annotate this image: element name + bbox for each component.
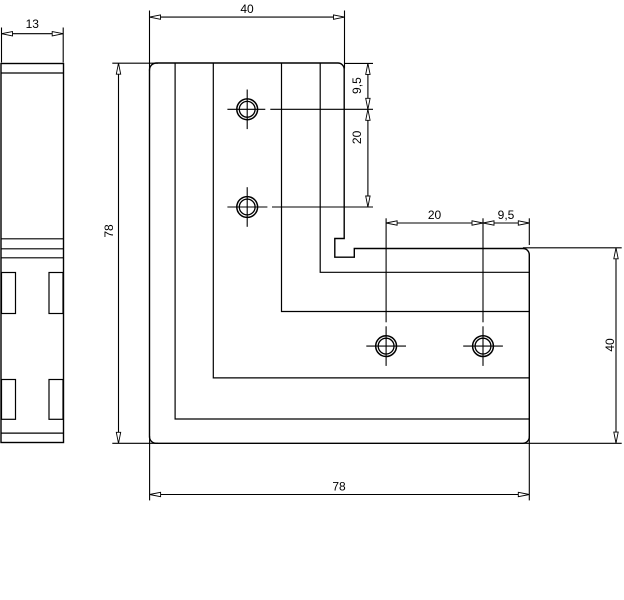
side view groove line A [1, 238, 64, 240]
dimension 40 top arrows [150, 15, 345, 19]
dimension 78 left extension lines [112, 63, 158, 443]
dimension 9,5 vertical line [367, 63, 369, 109]
side view top chamfer line [1, 72, 64, 74]
side view upper left slot [2, 273, 16, 314]
dimension 9,5 vertical arrows [366, 63, 370, 109]
dimension 9,5 horizontal extension line right [528, 218, 530, 245]
side view upper right slot [49, 273, 63, 314]
dimension 40 right line [615, 248, 617, 443]
dimension 78 left line [118, 63, 120, 443]
svg-text:20: 20 [428, 208, 442, 222]
side view bottom chamfer line [1, 432, 64, 434]
front view inner contour L4 [320, 63, 529, 272]
svg-text:78: 78 [102, 224, 116, 238]
hole H3 circles [376, 336, 397, 357]
dimension 9,5 horizontal line [483, 222, 529, 224]
dimension 13 extension lines [2, 28, 64, 63]
side view lower right slot [49, 380, 63, 420]
dimension 20 horizontal arrows [386, 221, 483, 225]
dimension 78 left arrows [116, 63, 120, 443]
dimension 20 vertical line [367, 109, 369, 207]
dimension 20 vertical arrows [366, 109, 370, 207]
dimension 78 bottom extension lines [150, 436, 530, 500]
svg-text:78: 78 [332, 480, 346, 494]
side view groove line B [1, 248, 64, 250]
hole H1 centerlines [227, 90, 373, 130]
front view inner contour L1 [175, 63, 529, 419]
front view inner contour L2 [213, 63, 529, 378]
dimension 78 bottom arrows [150, 492, 530, 496]
dimension 9,5 vertical extension line top [344, 62, 373, 64]
side view groove line C [1, 257, 64, 259]
svg-text:40: 40 [240, 2, 254, 16]
svg-text:9,5: 9,5 [498, 208, 515, 222]
dimension 40 right arrows [614, 248, 618, 443]
dimension 13 line [2, 33, 64, 35]
hole H4 circles [473, 336, 494, 357]
side view lower left slot [2, 380, 16, 420]
dimension 78 bottom line [150, 494, 530, 496]
hole H3 centerlines [366, 218, 406, 366]
svg-text:40: 40 [603, 338, 617, 352]
dimension 40 top extension lines [150, 11, 345, 72]
hole H1 circles [237, 99, 258, 120]
front view inner contour L3 [282, 63, 530, 312]
svg-text:9,5: 9,5 [350, 77, 364, 94]
front view outer profile [150, 63, 530, 443]
dimension 9,5 horizontal arrows [483, 221, 529, 225]
hole H4 centerlines [463, 218, 503, 366]
svg-text:20: 20 [350, 130, 364, 144]
dimension 13 arrows [2, 32, 64, 36]
dimension 40 right extension lines [523, 248, 622, 443]
hole H2 circles [237, 197, 258, 218]
dimension 20 horizontal line [386, 222, 483, 224]
side view body outline [1, 64, 64, 443]
dimension 40 top line [150, 16, 345, 18]
svg-text:13: 13 [26, 17, 40, 31]
hole H2 centerlines [227, 187, 373, 227]
